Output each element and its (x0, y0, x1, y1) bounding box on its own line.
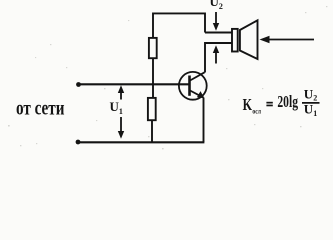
wire (top node to loudspeaker top terminal) (205, 32, 232, 34)
voltage arrow U2 (up head) (213, 45, 219, 63)
wire (base rail to R2 top) (152, 85, 154, 98)
svg-text:20lg: 20lg (277, 92, 298, 111)
terminal node (bottom input) (76, 140, 81, 145)
wire (bottom input rail to emitter) (78, 141, 204, 143)
transistor VT1 (179, 72, 207, 100)
wire (top input rail to transistor base) (79, 83, 190, 85)
wire (top rail over divider) (153, 13, 205, 37)
wire (R2 bottom to bottom rail) (151, 121, 153, 142)
svg-text:от сети: от сети (16, 98, 65, 120)
wire (loudspeaker bottom terminal to collector) (205, 43, 232, 73)
terminal node (top input) (76, 82, 81, 87)
voltage arrow U1 (down head) (118, 117, 124, 139)
svg-text:осл: осл (252, 107, 261, 115)
voltage arrow U2 (down head) (213, 12, 219, 31)
loudspeaker BA1 (232, 20, 258, 59)
voltage arrow U1 (up head) (118, 85, 124, 99)
wire (R1 bottom to base rail) (152, 59, 154, 85)
formula K_осл = 20lg U2/U1 (243, 86, 320, 118)
resistor R1 (upper) (149, 38, 157, 58)
svg-text:K: K (243, 95, 253, 114)
resistor R2 (lower) (148, 98, 156, 120)
wire (emitter to bottom rail) (203, 98, 205, 143)
signal arrow (acoustic input into loudspeaker) (260, 36, 315, 44)
